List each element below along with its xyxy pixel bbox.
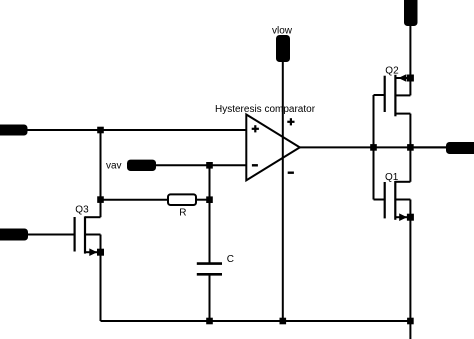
junction (cap to rail) — [206, 318, 213, 325]
wire (Q1 gate lead) — [374, 199, 385, 201]
wire (node OUT to port OUT) — [414, 146, 446, 148]
wire (node B to resistor R left lead) — [101, 199, 169, 201]
label + input pin — [252, 125, 259, 132]
junction node OUT-feedback — [370, 144, 377, 151]
svg-text:vav: vav — [106, 161, 122, 172]
port vav — [127, 160, 156, 171]
wire (ground rail) — [101, 320, 411, 322]
wire (Q2 gate lead) — [374, 94, 385, 96]
port OUT (right) — [446, 142, 474, 154]
junction (Q1 source line to rail) — [407, 318, 414, 325]
wire (comparator output to port OUT) — [300, 146, 446, 148]
junction node A — [97, 127, 104, 134]
junction node B (Q3 drain / resistor left) — [97, 196, 104, 203]
wire (Q1 source down to rail and off-page) — [409, 217, 411, 339]
wire (Q2 drain to node OUT) — [409, 114, 411, 148]
wire (gate feedback vertical Q2-Q1) — [373, 95, 375, 200]
capacitor C — [197, 262, 222, 265]
transistor Q3 (NMOS) — [75, 200, 104, 256]
wire (node OUT to Q1 drain) — [409, 147, 411, 181]
svg-text:R: R — [179, 208, 186, 219]
svg-text:Hysteresis comparator: Hysteresis comparator — [215, 104, 316, 115]
junction node C1top (R right / cap branch) — [206, 196, 213, 203]
wire (VDD to Q2 source) — [409, 26, 411, 78]
wire (Q3 source down to ground rail) — [100, 252, 102, 321]
label - input pin — [252, 164, 258, 166]
op-amp U1 hysteresis comparator — [246, 115, 299, 181]
label - supply pin — [288, 171, 294, 173]
port IO1 (left top input) — [0, 125, 28, 136]
wire (IO2 to Q3 gate) — [28, 234, 75, 236]
port VDD (top) — [404, 0, 418, 26]
wire (vlow supply line down to rail) — [282, 62, 284, 321]
transistor Q2 (PMOS) — [385, 74, 414, 116]
port IO2 (left lower input) — [0, 229, 28, 241]
port vlow — [276, 35, 290, 62]
resistor R — [168, 194, 196, 205]
junction (supply line to rail) — [280, 318, 287, 325]
wire (capacitor bottom lead to ground rail) — [209, 274, 211, 321]
transistor Q1 (NMOS) — [385, 181, 414, 221]
svg-text:Q3: Q3 — [75, 204, 89, 215]
wire (vav node down through R node to capacitor top) — [209, 165, 211, 263]
junction node OUT-drains — [407, 144, 414, 151]
label + supply pin — [287, 118, 294, 125]
wire (resistor R right lead) — [196, 199, 210, 201]
wire (IO1 to comparator + input, net A) — [27, 129, 247, 131]
svg-text:Q2: Q2 — [385, 66, 399, 77]
svg-text:vlow: vlow — [272, 26, 293, 37]
junction node vav — [206, 162, 213, 169]
wire (vav to comparator - input) — [156, 164, 246, 166]
svg-text:C: C — [227, 254, 234, 265]
wire (node A down to resistor node) — [100, 130, 102, 200]
